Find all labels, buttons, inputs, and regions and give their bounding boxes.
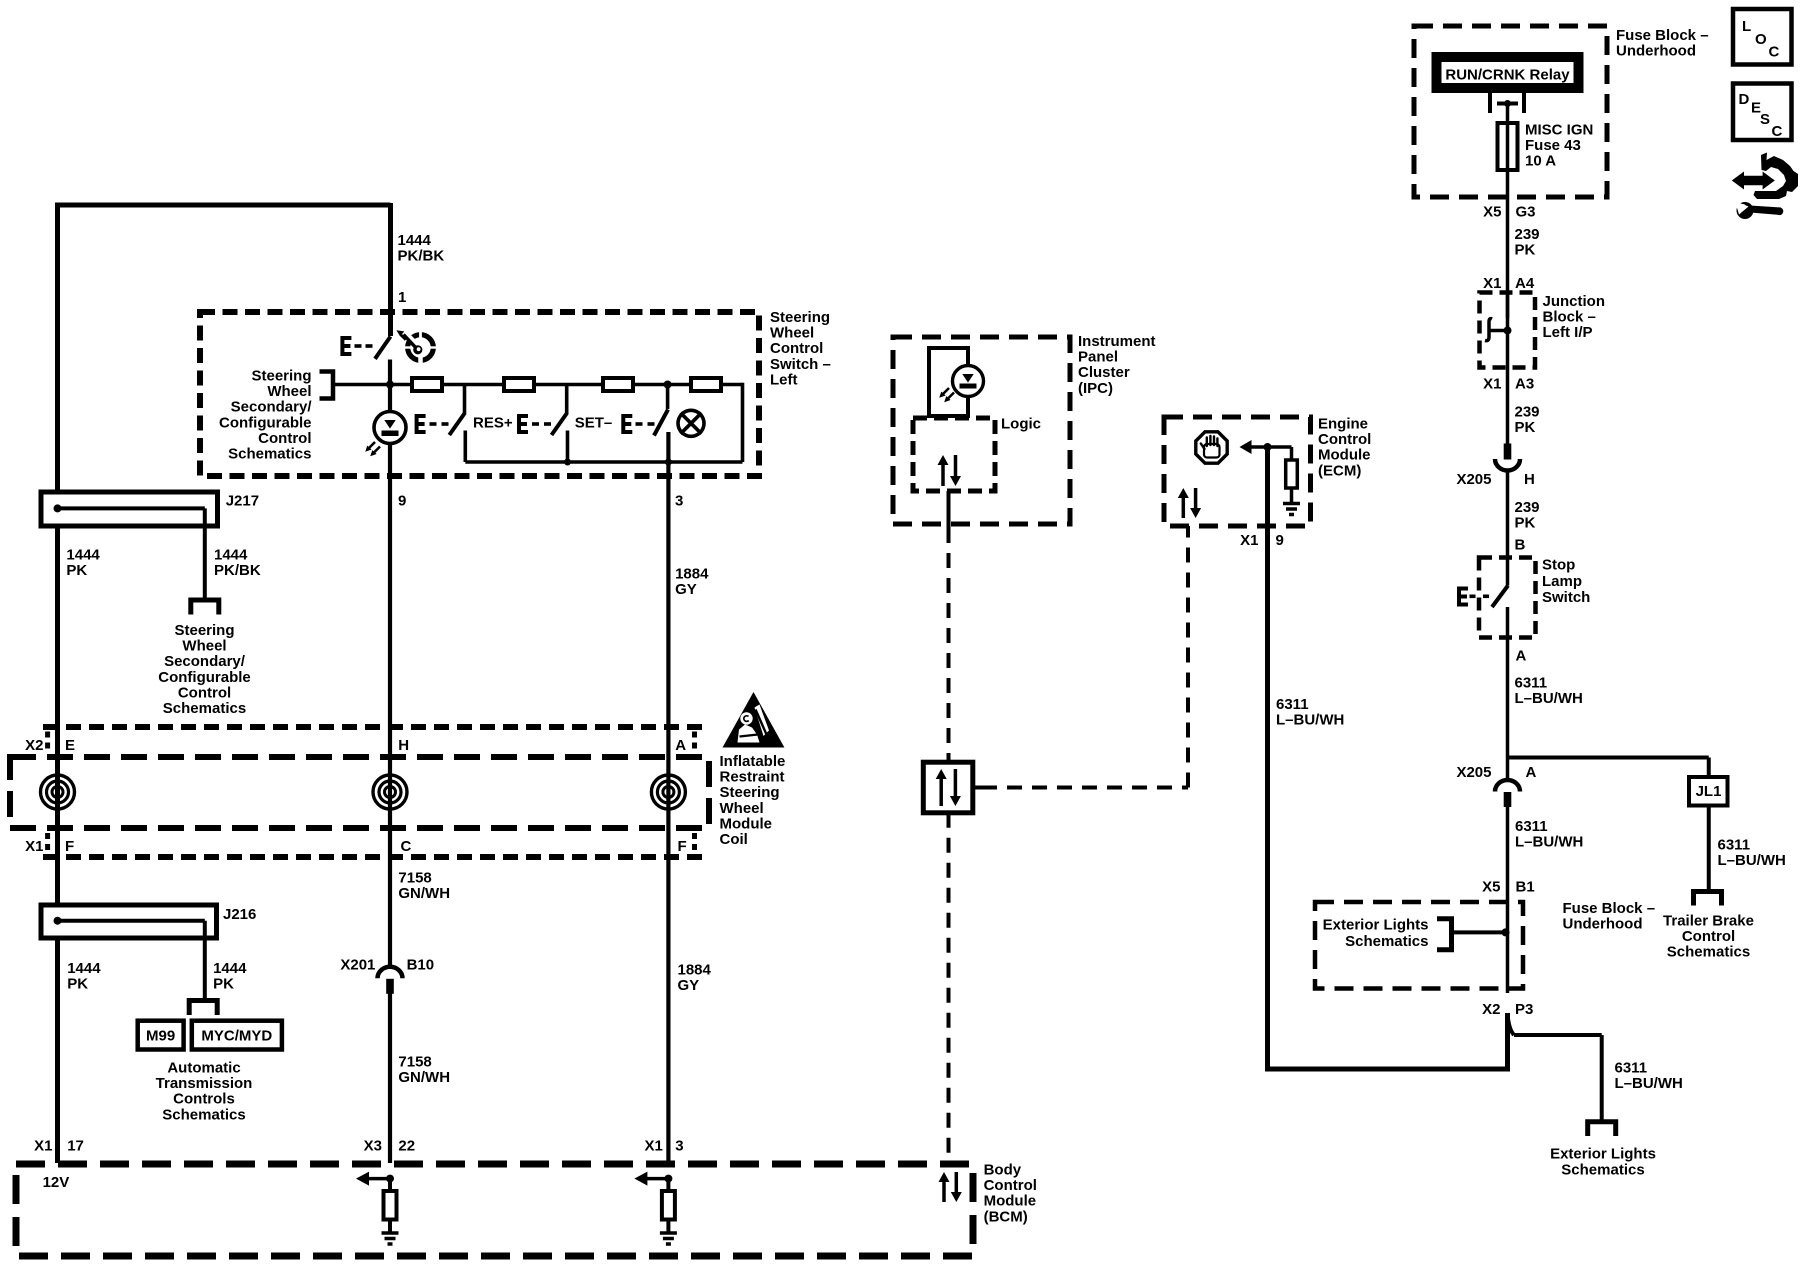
svg-text:22: 22 — [398, 1138, 415, 1155]
svg-text:RES+: RES+ — [473, 415, 513, 432]
svg-text:L–BU/WH: L–BU/WH — [1718, 852, 1786, 869]
svg-text:E: E — [65, 737, 75, 754]
svg-text:X5: X5 — [1482, 879, 1500, 896]
svg-text:Schematics: Schematics — [1345, 933, 1428, 950]
svg-text:B10: B10 — [407, 957, 435, 974]
svg-text:X1: X1 — [1483, 275, 1501, 292]
svg-text:Switch: Switch — [1542, 589, 1590, 606]
svg-text:A4: A4 — [1515, 275, 1535, 292]
svg-text:X1: X1 — [1240, 532, 1258, 549]
svg-text:C: C — [1769, 44, 1780, 61]
svg-text:RUN/CRNK Relay: RUN/CRNK Relay — [1445, 67, 1570, 84]
svg-text:H: H — [398, 737, 409, 754]
svg-text:1884: 1884 — [675, 566, 709, 583]
svg-text:Module: Module — [984, 1193, 1037, 1210]
svg-text:J217: J217 — [226, 493, 259, 510]
svg-text:PK: PK — [67, 976, 88, 993]
svg-text:C: C — [1772, 123, 1783, 140]
svg-text:1444: 1444 — [67, 960, 101, 977]
svg-text:Schematics: Schematics — [1561, 1161, 1644, 1178]
svg-text:Logic: Logic — [1001, 416, 1041, 433]
svg-text:Control: Control — [258, 430, 311, 447]
svg-text:X205: X205 — [1456, 471, 1491, 488]
svg-text:Body: Body — [984, 1162, 1022, 1179]
svg-text:PK/BK: PK/BK — [398, 248, 445, 265]
svg-text:Schematics: Schematics — [162, 1106, 245, 1123]
svg-text:L–BU/WH: L–BU/WH — [1276, 712, 1344, 729]
svg-text:9: 9 — [398, 493, 406, 510]
svg-text:Automatic: Automatic — [167, 1060, 240, 1077]
svg-text:Left: Left — [770, 371, 798, 388]
svg-text:X3: X3 — [364, 1138, 382, 1155]
svg-text:Secondary/: Secondary/ — [231, 399, 313, 416]
svg-text:Schematics: Schematics — [163, 700, 246, 717]
svg-text:PK/BK: PK/BK — [214, 562, 261, 579]
svg-text:(IPC): (IPC) — [1078, 380, 1113, 397]
svg-text:(ECM): (ECM) — [1318, 462, 1361, 479]
svg-text:Engine: Engine — [1318, 416, 1368, 433]
svg-text:PK: PK — [1515, 515, 1536, 532]
svg-text:Fuse Block –: Fuse Block – — [1616, 27, 1709, 44]
svg-text:(BCM): (BCM) — [984, 1208, 1028, 1225]
svg-text:O: O — [1755, 31, 1767, 48]
svg-text:X1: X1 — [25, 838, 43, 855]
svg-text:Inflatable: Inflatable — [720, 753, 786, 770]
svg-text:Left I/P: Left I/P — [1543, 324, 1593, 341]
svg-text:Stop: Stop — [1542, 557, 1575, 574]
svg-text:3: 3 — [675, 1138, 683, 1155]
svg-text:PK: PK — [1515, 242, 1536, 259]
svg-text:Module: Module — [1318, 447, 1371, 464]
svg-text:F: F — [65, 838, 74, 855]
svg-text:7158: 7158 — [398, 870, 431, 887]
svg-text:Control: Control — [984, 1177, 1037, 1194]
svg-text:Exterior Lights: Exterior Lights — [1323, 917, 1429, 934]
svg-text:A: A — [675, 737, 686, 754]
svg-text:X1: X1 — [1483, 376, 1501, 393]
svg-text:L–BU/WH: L–BU/WH — [1615, 1075, 1683, 1092]
svg-text:Control: Control — [770, 340, 823, 357]
svg-text:A: A — [1516, 648, 1527, 665]
svg-text:17: 17 — [67, 1138, 84, 1155]
svg-text:6311: 6311 — [1515, 675, 1548, 692]
svg-text:Trailer Brake: Trailer Brake — [1663, 913, 1754, 930]
svg-text:6311: 6311 — [1276, 696, 1309, 713]
svg-text:Fuse 43: Fuse 43 — [1525, 137, 1581, 154]
svg-text:Controls: Controls — [173, 1091, 235, 1108]
svg-text:Switch –: Switch – — [770, 356, 831, 373]
svg-text:Underhood: Underhood — [1563, 916, 1643, 933]
svg-text:9: 9 — [1276, 532, 1284, 549]
svg-text:P3: P3 — [1515, 1001, 1533, 1018]
svg-text:Instrument: Instrument — [1078, 333, 1156, 350]
svg-text:GY: GY — [678, 977, 700, 994]
svg-text:Wheel: Wheel — [182, 638, 226, 655]
svg-text:Transmission: Transmission — [156, 1075, 253, 1092]
svg-text:X1: X1 — [34, 1138, 52, 1155]
svg-text:L–BU/WH: L–BU/WH — [1515, 690, 1583, 707]
svg-text:Steering: Steering — [251, 368, 311, 385]
svg-text:B1: B1 — [1516, 879, 1535, 896]
svg-text:F: F — [678, 838, 687, 855]
svg-text:6311: 6311 — [1515, 818, 1548, 835]
svg-text:Schematics: Schematics — [1667, 944, 1750, 961]
svg-text:3: 3 — [675, 493, 683, 510]
svg-text:L: L — [1742, 18, 1751, 35]
svg-text:Restraint: Restraint — [720, 769, 785, 786]
svg-text:239: 239 — [1515, 499, 1540, 516]
svg-text:Underhood: Underhood — [1616, 43, 1696, 60]
svg-text:239: 239 — [1515, 404, 1540, 421]
svg-text:X205: X205 — [1456, 764, 1491, 781]
svg-text:Steering: Steering — [770, 309, 830, 326]
svg-text:GY: GY — [675, 581, 697, 598]
svg-text:7158: 7158 — [398, 1054, 431, 1071]
svg-text:6311: 6311 — [1615, 1060, 1648, 1077]
svg-text:Cluster: Cluster — [1078, 364, 1130, 381]
svg-text:1444: 1444 — [66, 547, 100, 564]
svg-text:12V: 12V — [43, 1174, 70, 1191]
svg-text:GN/WH: GN/WH — [398, 1069, 450, 1086]
svg-text:C: C — [401, 838, 412, 855]
svg-text:Block –: Block – — [1543, 309, 1596, 326]
svg-text:1444: 1444 — [214, 547, 248, 564]
svg-text:JL1: JL1 — [1696, 783, 1722, 800]
svg-text:Control: Control — [1318, 431, 1371, 448]
svg-text:Module: Module — [720, 815, 773, 832]
svg-text:Junction: Junction — [1543, 293, 1606, 310]
svg-text:Fuse Block –: Fuse Block – — [1563, 900, 1656, 917]
svg-text:PK: PK — [66, 562, 87, 579]
svg-text:Configurable: Configurable — [158, 669, 251, 686]
svg-text:J216: J216 — [223, 906, 256, 923]
svg-text:GN/WH: GN/WH — [398, 885, 450, 902]
svg-text:S: S — [1760, 111, 1770, 128]
svg-text:1444: 1444 — [213, 960, 247, 977]
svg-text:6311: 6311 — [1718, 837, 1751, 854]
svg-text:239: 239 — [1515, 226, 1540, 243]
svg-text:Configurable: Configurable — [219, 414, 312, 431]
svg-text:Wheel: Wheel — [267, 383, 311, 400]
svg-text:1444: 1444 — [398, 232, 432, 249]
svg-text:Schematics: Schematics — [228, 446, 311, 463]
svg-text:MISC IGN: MISC IGN — [1525, 122, 1593, 139]
svg-text:Steering: Steering — [174, 622, 234, 639]
svg-text:H: H — [1524, 471, 1535, 488]
svg-text:PK: PK — [1515, 419, 1536, 436]
svg-text:Control: Control — [1682, 928, 1735, 945]
svg-text:Wheel: Wheel — [720, 800, 764, 817]
svg-text:Exterior Lights: Exterior Lights — [1550, 1146, 1656, 1163]
svg-text:SET–: SET– — [575, 415, 613, 432]
svg-text:B: B — [1515, 537, 1526, 554]
svg-text:A: A — [1526, 764, 1537, 781]
svg-text:X201: X201 — [340, 957, 375, 974]
svg-text:L–BU/WH: L–BU/WH — [1515, 834, 1583, 851]
svg-text:1884: 1884 — [678, 961, 712, 978]
svg-text:X1: X1 — [644, 1138, 662, 1155]
svg-text:M99: M99 — [146, 1028, 175, 1045]
svg-text:Wheel: Wheel — [770, 325, 814, 342]
svg-text:X2: X2 — [1482, 1001, 1500, 1018]
svg-text:G3: G3 — [1516, 204, 1536, 221]
svg-text:1: 1 — [398, 289, 406, 306]
svg-text:A3: A3 — [1515, 376, 1534, 393]
svg-text:Panel: Panel — [1078, 349, 1118, 366]
svg-text:Coil: Coil — [720, 831, 748, 848]
svg-text:X2: X2 — [25, 737, 43, 754]
svg-text:Control: Control — [178, 684, 231, 701]
svg-text:PK: PK — [213, 976, 234, 993]
svg-text:D: D — [1739, 91, 1750, 108]
svg-text:X5: X5 — [1483, 204, 1501, 221]
svg-text:10 A: 10 A — [1525, 153, 1556, 170]
svg-text:MYC/MYD: MYC/MYD — [201, 1028, 272, 1045]
svg-text:Lamp: Lamp — [1542, 573, 1582, 590]
svg-text:Secondary/: Secondary/ — [164, 653, 246, 670]
svg-text:Steering: Steering — [720, 784, 780, 801]
